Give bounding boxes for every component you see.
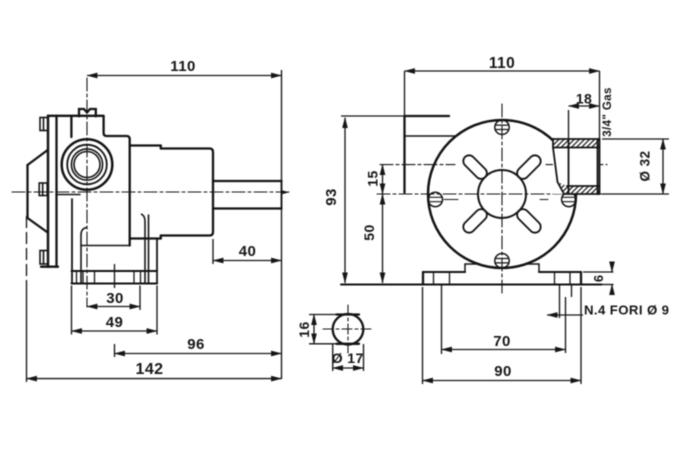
- svg-text:3/4" Gas: 3/4" Gas: [602, 87, 614, 137]
- svg-text:Ø 32: Ø 32: [638, 151, 653, 182]
- svg-text:40: 40: [239, 243, 257, 260]
- svg-text:30: 30: [106, 290, 124, 307]
- svg-text:15: 15: [365, 170, 381, 186]
- svg-text:90: 90: [494, 363, 512, 380]
- svg-text:49: 49: [106, 314, 124, 331]
- svg-text:Ø 17: Ø 17: [332, 350, 364, 366]
- svg-text:50: 50: [361, 224, 377, 240]
- svg-text:6: 6: [591, 274, 606, 282]
- svg-text:142: 142: [136, 361, 164, 378]
- svg-text:110: 110: [489, 55, 515, 72]
- svg-text:96: 96: [187, 336, 205, 353]
- svg-text:110: 110: [170, 58, 195, 75]
- svg-text:18: 18: [576, 91, 592, 107]
- svg-text:16: 16: [296, 321, 312, 337]
- svg-text:93: 93: [323, 188, 340, 206]
- svg-text:70: 70: [493, 333, 511, 350]
- svg-text:N.4 FORI Ø 9: N.4 FORI Ø 9: [584, 303, 669, 318]
